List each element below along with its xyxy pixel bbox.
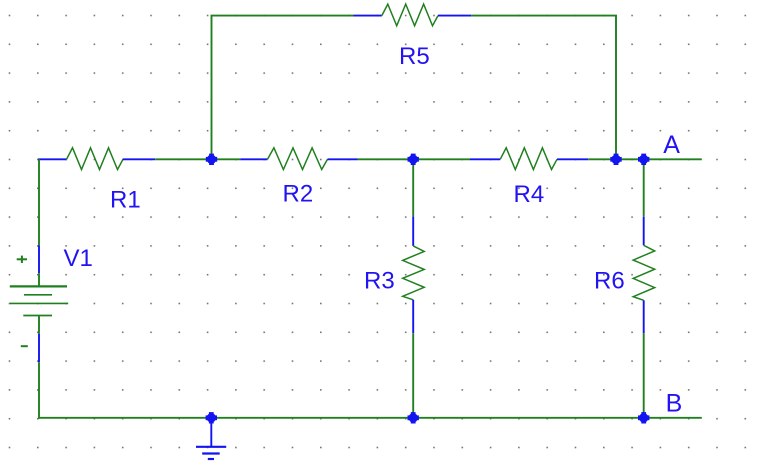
wire: below battery green segment — [38, 316, 40, 334]
ground bar 2 — [202, 452, 220, 454]
ground bar 1 — [196, 446, 226, 448]
wire: R2 to R4 through node 2 — [358, 158, 471, 160]
resistor R4 zigzag body — [500, 148, 557, 170]
wire: lead to battery top plate — [38, 273, 40, 286]
node junction dot: R4/top-loop — [610, 154, 621, 165]
resistor R5 right lead — [438, 15, 471, 17]
resistor R6 bottom lead — [643, 300, 645, 333]
wire: node 2 down to R3 — [412, 159, 414, 216]
wire: V1 branch bottom green segment — [38, 362, 40, 419]
ground bar 3 — [208, 458, 214, 460]
resistor R6 zigzag body — [633, 245, 655, 300]
resistor R1 left lead (from V1 top corner) — [38, 158, 66, 160]
wire: right vertical from R5 row down to node A row — [615, 16, 617, 160]
resistor R3 zigzag body — [403, 246, 425, 300]
node junction dot: node A / R6 — [638, 154, 649, 165]
resistor R1 right lead — [123, 158, 155, 160]
resistor R3 bottom lead — [412, 300, 414, 333]
svg-text:A: A — [663, 131, 680, 159]
svg-text:R2: R2 — [283, 180, 314, 207]
battery V1 plus mark — [17, 256, 27, 263]
resistor R3 top lead — [412, 217, 414, 246]
svg-text:R1: R1 — [110, 187, 141, 214]
node junction dot: R3 on bottom rail — [408, 412, 419, 423]
wire: R4 to node A and right stub — [588, 158, 702, 160]
wire: bottom rail (node B) — [38, 417, 702, 419]
svg-text:R3: R3 — [364, 267, 395, 294]
wire: top horizontal right segment from R5 — [471, 15, 617, 17]
ground stub — [210, 418, 212, 447]
node junction dot: R1/R2/top-loop — [206, 154, 217, 165]
wire: R3 down to bottom rail — [412, 333, 414, 418]
wire: V1 branch top green segment — [38, 159, 40, 245]
svg-text:R6: R6 — [594, 267, 625, 294]
battery V1 plate 3 (long) — [10, 302, 68, 304]
svg-text:B: B — [666, 390, 683, 418]
resistor R6 top lead — [643, 217, 645, 246]
node junction dot: R2/R4/R3 — [408, 154, 419, 165]
battery V1 minus mark — [21, 345, 28, 347]
battery V1 plate 1 (long, positive) — [10, 285, 67, 287]
wire: R1 to node 1 — [155, 158, 240, 160]
svg-text:R4: R4 — [514, 181, 545, 208]
battery V1 positive lead (blue) — [38, 245, 40, 273]
wire: node A down to R6 — [643, 159, 645, 217]
wire: top horizontal left segment to R5 — [211, 15, 354, 17]
resistor R2 right lead — [328, 158, 358, 160]
resistor R4 right lead — [557, 158, 588, 160]
resistor R2 zigzag body — [268, 148, 328, 170]
resistor R4 left lead — [470, 158, 500, 160]
wire: top-left vertical from node1 up to R5 row — [211, 16, 213, 160]
resistor R1 zigzag body — [67, 148, 124, 170]
node junction dot: R6 on bottom rail (node B) — [638, 412, 649, 423]
wire: R6 down to bottom rail — [643, 333, 645, 418]
battery V1 plate 4 (short, negative) — [23, 315, 52, 317]
battery V1 negative lead (blue) — [38, 334, 40, 363]
svg-text:V1: V1 — [64, 245, 93, 272]
battery V1 plate 2 (short) — [24, 294, 52, 296]
node junction dot: ground on bottom rail — [206, 412, 217, 423]
resistor R5 zigzag body — [382, 4, 438, 26]
resistor R2 left lead — [240, 158, 267, 160]
resistor R5 left lead — [354, 15, 382, 17]
svg-text:R5: R5 — [399, 43, 430, 70]
